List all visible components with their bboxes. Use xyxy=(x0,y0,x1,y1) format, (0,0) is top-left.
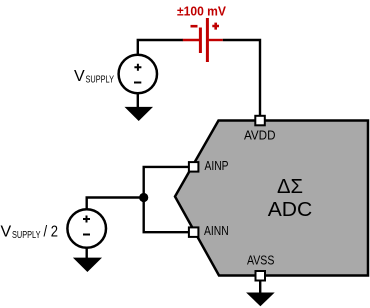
wire AVSS to ground xyxy=(259,281,261,294)
V_SUPPLY plus sign xyxy=(134,64,141,71)
pin AVDD (square) xyxy=(255,116,264,126)
svg-text:±100 mV: ±100 mV xyxy=(177,3,226,18)
wire vertical AINP-AINN bus xyxy=(142,167,144,232)
wire stub to AINP xyxy=(143,166,191,168)
wire from battery to AVDD pin xyxy=(223,40,260,116)
V_SUPPLY minus sign xyxy=(134,82,141,84)
battery minus sign xyxy=(191,25,198,28)
svg-text:AVDD: AVDD xyxy=(244,128,276,143)
svg-text:ADC: ADC xyxy=(268,199,313,221)
wire stub to AINN xyxy=(143,231,191,233)
ground (below AVSS) xyxy=(246,293,275,307)
pin AVSS (square) xyxy=(256,271,266,281)
wire battery left lead (red) xyxy=(183,39,199,41)
svg-text:SUPPLY: SUPPLY xyxy=(86,74,115,86)
wire battery right lead (red) xyxy=(209,39,223,41)
svg-text:SUPPLY: SUPPLY xyxy=(12,229,41,241)
wire top from V_SUPPLY to battery xyxy=(138,40,183,55)
svg-text:V: V xyxy=(1,223,12,240)
svg-text:ΔΣ: ΔΣ xyxy=(277,176,303,198)
V_SUPPLY/2 minus sign xyxy=(83,234,90,236)
battery B1 right plate (long, positive) xyxy=(206,18,209,62)
battery plus sign xyxy=(212,23,219,30)
wire V_SUPPLY/2 bottom to ground xyxy=(85,248,87,258)
svg-text:/ 2: / 2 xyxy=(44,223,59,240)
wire V_SUPPLY/2 top to junction xyxy=(87,198,144,210)
wire V_SUPPLY bottom to ground xyxy=(137,93,139,108)
voltage source V_SUPPLY xyxy=(119,55,157,93)
voltage source V_SUPPLY/2 xyxy=(67,209,106,248)
op-amp U1 (delta-sigma ADC block) xyxy=(175,121,368,276)
pin AINP (square) xyxy=(189,162,199,172)
pin AINN (square) xyxy=(189,227,199,237)
svg-text:AINP: AINP xyxy=(205,158,229,173)
V_SUPPLY/2 plus sign xyxy=(83,216,90,223)
ground (below V_SUPPLY/2) xyxy=(73,258,102,272)
svg-text:AINN: AINN xyxy=(204,223,229,238)
junction node (dot) xyxy=(139,193,148,202)
svg-text:AVSS: AVSS xyxy=(247,252,275,267)
svg-text:V: V xyxy=(74,68,85,85)
ground (below V_SUPPLY) xyxy=(125,107,154,121)
battery B1 left plate (short, negative) xyxy=(199,28,202,54)
